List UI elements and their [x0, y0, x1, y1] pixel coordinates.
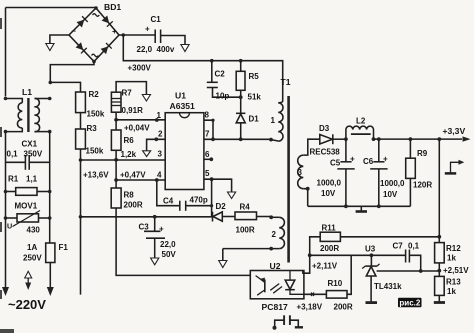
svg-text:8: 8 [205, 111, 210, 120]
svg-text:+: + [350, 155, 355, 164]
IC U1 A6351 [157, 91, 211, 190]
primary ground arrow (R7) [142, 95, 150, 102]
svg-text:R1: R1 [8, 175, 19, 184]
svg-text:C4: C4 [163, 197, 174, 206]
wire bridge plus to C1 [119, 33, 155, 37]
svg-text:D2: D2 [216, 202, 227, 211]
svg-text:2: 2 [158, 130, 163, 139]
svg-text:150k: 150k [86, 147, 104, 156]
line-filter choke L1 [4, 87, 52, 133]
output capacitor C6 1000,0 10V [363, 139, 405, 206]
svg-text:1,1: 1,1 [26, 175, 38, 184]
svg-text:C1: C1 [151, 15, 162, 24]
TL431 ref wire to divider [377, 269, 440, 273]
wire bridge minus to primary ground [50, 35, 69, 44]
mains input arrows ~220V [2, 271, 54, 312]
snubber resistor R5 51k [236, 61, 261, 113]
T1 aux winding 2 [223, 215, 285, 250]
optocoupler U2 PC817 [250, 261, 304, 312]
Vcc rail +13,6V [79, 149, 110, 295]
svg-text:C7: C7 [393, 242, 404, 251]
svg-text:51k: 51k [248, 93, 262, 102]
svg-text:+: + [112, 27, 117, 36]
svg-text:1: 1 [271, 116, 276, 125]
svg-text:~220V: ~220V [8, 297, 46, 312]
svg-text:+2,11V: +2,11V [312, 262, 338, 271]
svg-text:–: – [72, 27, 77, 36]
svg-text:R4: R4 [240, 203, 251, 212]
feedback resistor R11 200R [303, 224, 441, 274]
svg-text:T1: T1 [281, 77, 291, 87]
svg-text:3: 3 [158, 150, 163, 159]
U1 pin 2 wire to primary ground [147, 137, 166, 150]
startup resistor R2 150k [49, 81, 105, 119]
svg-text:+300V: +300V [128, 64, 152, 73]
svg-text:A6351: A6351 [170, 101, 196, 111]
sense resistor R7 0,91R [111, 82, 146, 120]
compensation capacitor C7 0,1 [393, 242, 421, 272]
scan artifacts [0, 18, 14, 333]
svg-text:R5: R5 [249, 72, 260, 81]
divider resistor R12 1k [435, 139, 470, 276]
svg-text:350V: 350V [24, 150, 43, 159]
svg-text:C5: C5 [330, 159, 341, 168]
fuse F1 1A 250V [23, 243, 68, 288]
svg-text:+2,51V: +2,51V [443, 266, 469, 275]
secondary ground rail [308, 204, 411, 208]
svg-text:10p: 10p [216, 92, 230, 101]
svg-text:0,1: 0,1 [408, 242, 420, 251]
svg-text:REC538: REC538 [310, 148, 341, 157]
svg-text:+0,47V: +0,47V [120, 171, 146, 180]
wire U1 pin 3 to Vcc rail [81, 159, 166, 161]
svg-text:F1: F1 [59, 243, 69, 252]
clamp diode D1 [236, 113, 259, 139]
svg-text:R8: R8 [124, 191, 135, 200]
node +2,11V [308, 253, 406, 270]
T1 primary winding 1 [271, 101, 284, 141]
primary ground arrow (C1) [181, 45, 189, 52]
svg-text:L2: L2 [356, 117, 366, 126]
svg-text:R2: R2 [89, 90, 100, 99]
svg-text:1k: 1k [447, 254, 456, 263]
svg-text:3: 3 [298, 168, 303, 177]
aux resistor R4 100R [235, 203, 271, 235]
svg-text:D1: D1 [249, 115, 260, 124]
shunt regulator U3 TL431k [362, 245, 402, 303]
U1 pin 7 wire to transformer primary [204, 137, 278, 141]
secondary ground symbol [356, 206, 367, 211]
svg-text:PC817: PC817 [262, 302, 288, 312]
svg-text:+: + [145, 25, 150, 34]
svg-text:C3: C3 [139, 223, 150, 232]
U1 pin 5 wire to primary ground [204, 177, 232, 192]
svg-text:CX1: CX1 [22, 140, 38, 149]
capacitor C1 22,0 400v [137, 15, 186, 54]
svg-text:+0,04V: +0,04V [124, 124, 150, 133]
primary ground arrow (winding 2) [219, 249, 227, 268]
svg-text:200R: 200R [320, 244, 339, 253]
startup resistor R3 150k [76, 113, 104, 156]
divider resistor R13 1k [435, 276, 462, 302]
secondary ground (TL431) [366, 301, 378, 304]
output capacitor C5 1000,0 10V [317, 139, 356, 206]
svg-text:+3,3V: +3,3V [443, 126, 466, 136]
svg-text:C6: C6 [363, 157, 374, 166]
snubber capacitor C2 10p [207, 61, 241, 101]
left mains rail [5, 132, 7, 288]
svg-text:R13: R13 [446, 278, 461, 287]
svg-text:470p: 470p [190, 196, 208, 205]
svg-text:200R: 200R [334, 303, 353, 312]
svg-text:4: 4 [157, 171, 162, 180]
svg-text:22,0: 22,0 [160, 240, 176, 249]
svg-text:1000,0: 1000,0 [380, 179, 405, 188]
svg-text:+13,6V: +13,6V [83, 171, 109, 180]
primary ground arrow (C3) [151, 258, 159, 265]
primary ground arrow (pin 2) [143, 151, 151, 157]
wire bridge AC bottom to fuse rail [50, 62, 94, 83]
svg-text:R3: R3 [87, 124, 98, 133]
bridge rectifier BD1 [69, 2, 121, 63]
svg-text:100R: 100R [236, 226, 255, 235]
varistor MOV1 430 [4, 202, 52, 235]
svg-text:рис.2: рис.2 [399, 299, 420, 308]
svg-text:5: 5 [205, 169, 210, 178]
svg-text:U3: U3 [365, 245, 376, 254]
svg-text:R11: R11 [322, 224, 337, 233]
svg-text:U1: U1 [175, 91, 186, 101]
svg-text:BD1: BD1 [104, 2, 121, 12]
Vcc filter capacitor C3 22,0 50V [139, 217, 177, 259]
svg-text:1,2k: 1,2k [121, 150, 137, 159]
wire opto LED cathode to R10 [297, 293, 327, 312]
svg-text:6: 6 [205, 150, 210, 159]
svg-text:7: 7 [205, 130, 210, 139]
resistor R8 200R [111, 180, 250, 275]
svg-text:TL431k: TL431k [374, 282, 402, 291]
U1 pin 8 stub to pin 7 [204, 119, 215, 140]
feedback capacitor C4 470p [155, 178, 212, 211]
transformer T1 [281, 77, 291, 263]
svg-text:0,91R: 0,91R [122, 106, 144, 115]
svg-text:MOV1: MOV1 [15, 202, 38, 211]
svg-text:+: + [383, 155, 388, 164]
svg-text:400v: 400v [157, 45, 175, 54]
svg-text:+3,18V: +3,18V [297, 303, 323, 312]
svg-text:50V: 50V [162, 250, 177, 259]
output connector arrow [445, 160, 465, 174]
svg-text:1000,0: 1000,0 [317, 179, 342, 188]
svg-text:200R: 200R [124, 201, 143, 210]
svg-text:+: + [159, 225, 164, 234]
svg-text:0,1: 0,1 [7, 150, 19, 159]
+3,3V output rail [344, 126, 471, 142]
right mains rail [49, 132, 51, 243]
secondary ground (R13) [434, 301, 445, 304]
aux supply wire to Vcc rail [81, 215, 213, 219]
svg-text:1k: 1k [447, 287, 456, 296]
svg-text:10V: 10V [383, 190, 398, 199]
svg-text:150k: 150k [87, 110, 105, 119]
svg-text:R10: R10 [328, 279, 343, 288]
resistor R10 200R [326, 255, 352, 311]
svg-text:2: 2 [272, 230, 277, 239]
svg-text:U2: U2 [270, 261, 281, 271]
svg-text:250V: 250V [23, 254, 42, 263]
X-capacitor CX1 0,1 350V [6, 140, 50, 170]
resistor R6 1,2k [111, 120, 136, 180]
Y-capacitor primary-secondary [273, 315, 304, 330]
svg-text:1A: 1A [27, 243, 37, 252]
svg-text:R12: R12 [446, 244, 461, 253]
aux rectifier diode D2 [210, 179, 235, 221]
+300V rail [123, 35, 282, 102]
svg-text:1: 1 [157, 111, 162, 120]
primary ground arrow (pin 5) [228, 192, 236, 199]
load resistor R9 120R [406, 139, 433, 206]
resistor R1 1,1 [4, 175, 52, 196]
U1 pin 6 stub [204, 157, 213, 161]
svg-text:22,0: 22,0 [137, 45, 153, 54]
svg-text:C2: C2 [215, 70, 226, 79]
output rectifier D3 REC538 [310, 124, 346, 157]
node pin1 / wire to U1 pin 1 [114, 118, 165, 133]
primary ground arrow (bridge minus) [46, 44, 54, 51]
wire U1 pin 4 node [114, 171, 165, 182]
T1 secondary winding 3 [298, 139, 320, 206]
output choke L2 [346, 117, 376, 142]
svg-text:R7: R7 [122, 89, 133, 98]
wire top-left mains to bridge [6, 8, 97, 97]
svg-text:10V: 10V [321, 189, 336, 198]
svg-text:430: 430 [27, 226, 41, 235]
svg-text:D3: D3 [319, 124, 330, 133]
svg-text:U: U [7, 222, 12, 231]
figure badge рис.2 [398, 298, 422, 308]
svg-text:120R: 120R [413, 181, 432, 190]
svg-text:R9: R9 [417, 149, 428, 158]
svg-text:R6: R6 [124, 136, 135, 145]
svg-text:L1: L1 [22, 87, 32, 97]
